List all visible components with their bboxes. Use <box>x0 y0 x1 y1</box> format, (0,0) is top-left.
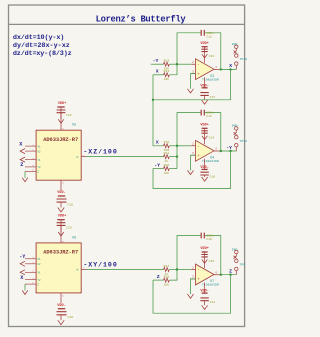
power VDD- multiplier <box>60 293 62 303</box>
svg-text:dx/dt=10(y-x): dx/dt=10(y-x) <box>13 34 65 42</box>
capacitor C13 <box>201 49 207 51</box>
svg-text:-Y: -Y <box>19 254 26 260</box>
svg-text:X: X <box>156 140 159 146</box>
ground <box>58 119 64 123</box>
wire X loop down <box>153 69 231 99</box>
capacitor C16 <box>57 199 67 202</box>
svg-text:X2: X2 <box>37 150 41 153</box>
wire -Y input <box>151 63 164 65</box>
ground Y1 <box>20 270 25 275</box>
wire -XZ/100 from multiplier U5 <box>87 156 164 158</box>
wire noninverting input to ground <box>191 74 196 89</box>
svg-text:C14: C14 <box>209 135 215 139</box>
wire C19 to output <box>205 236 221 275</box>
svg-text:C13: C13 <box>209 54 215 58</box>
pin 6 Z <box>25 283 36 285</box>
wire output <box>220 68 237 70</box>
svg-text:R18: R18 <box>164 275 170 279</box>
wire input rows to junction <box>176 146 178 169</box>
ground <box>202 305 208 309</box>
ground <box>202 100 208 104</box>
multiplier U5 AD633JRZ-R7 <box>36 130 81 180</box>
svg-text:-: - <box>197 269 200 273</box>
svg-text:-Y: -Y <box>154 163 160 169</box>
svg-text:dz/dt=xy-(8/3)z: dz/dt=xy-(8/3)z <box>13 50 72 58</box>
wire C11 to output <box>205 33 221 70</box>
svg-text:R17: R17 <box>164 264 170 268</box>
capacitor C19 100n <box>201 233 204 239</box>
ground <box>58 208 64 213</box>
svg-text:-Y: -Y <box>226 145 232 151</box>
wire to summing junction <box>170 63 178 65</box>
wire <box>170 269 178 271</box>
svg-text:-XY/100: -XY/100 <box>83 261 116 268</box>
svg-text:10k: 10k <box>164 171 170 175</box>
svg-text:Lorenz’s Butterfly: Lorenz’s Butterfly <box>96 14 187 24</box>
svg-text:C21: C21 <box>210 300 216 304</box>
svg-text:X: X <box>229 63 232 69</box>
test point TP12 <box>235 136 238 139</box>
capacitor C23 <box>57 223 66 226</box>
junction <box>220 68 222 70</box>
resistor R14 10k <box>164 73 170 77</box>
pin 6 Z <box>25 170 36 172</box>
ground X2 <box>20 149 25 154</box>
junction <box>176 145 178 147</box>
resistor R17 1k <box>164 268 170 272</box>
junction <box>229 150 231 152</box>
svg-text:X1: X1 <box>37 258 41 261</box>
svg-text:R16: R16 <box>164 163 170 167</box>
wire X input <box>153 74 164 76</box>
capacitor C12 100n <box>201 110 204 116</box>
ground <box>202 136 207 140</box>
svg-text:VDD+: VDD+ <box>200 124 208 128</box>
wire Z loop <box>153 275 231 314</box>
wire <box>170 156 178 158</box>
junction <box>220 150 222 152</box>
capacitor C17 <box>200 93 208 96</box>
svg-text:U5: U5 <box>72 123 76 127</box>
wire feedback to C19 <box>177 236 201 270</box>
svg-text:-XZ/100: -XZ/100 <box>83 148 116 155</box>
wire Z pin to ground <box>24 171 26 177</box>
op-amp U7 TL081AIDR <box>196 264 215 285</box>
svg-text:VDD-: VDD- <box>57 304 65 308</box>
wire output <box>220 274 237 276</box>
ground <box>202 177 208 181</box>
wire -XY/100 from multiplier U6 <box>87 269 164 271</box>
svg-text:10k: 10k <box>164 77 170 81</box>
svg-text:X: X <box>156 69 159 75</box>
svg-text:Z: Z <box>20 162 23 168</box>
svg-text:R15: R15 <box>164 140 170 144</box>
svg-text:C22: C22 <box>66 113 72 117</box>
svg-text:TP10: TP10 <box>240 57 248 61</box>
pin 7 W output <box>81 156 86 158</box>
svg-text:Y2: Y2 <box>37 166 41 169</box>
svg-text:X2: X2 <box>37 263 41 266</box>
sheet frame <box>9 5 245 327</box>
pin 1 X1 <box>25 258 36 260</box>
wire Z pin to ground <box>24 284 26 290</box>
svg-text:C18: C18 <box>210 174 216 178</box>
pin 2 X2 <box>25 150 36 152</box>
wire X row to junction <box>170 64 178 75</box>
svg-text:VDD+: VDD+ <box>200 42 208 46</box>
svg-text:C17: C17 <box>210 95 216 99</box>
wire -Y input row <box>153 168 164 170</box>
wire X to mid block <box>153 100 164 146</box>
wire feedback to C11 <box>177 33 201 64</box>
svg-text:AD633JRZ-R7: AD633JRZ-R7 <box>43 250 78 256</box>
pin 4 Y2 <box>25 166 36 168</box>
resistor R18 10k <box>164 278 170 282</box>
op-amp U3 TL081AIDR <box>196 59 215 80</box>
svg-text:C16: C16 <box>68 203 74 207</box>
pin 1 X1 <box>25 145 36 147</box>
wire feedback to C12 <box>177 113 201 146</box>
ground <box>188 294 194 298</box>
wire noninverting input to ground <box>191 155 196 170</box>
svg-text:Z: Z <box>157 274 160 280</box>
svg-text:10k: 10k <box>164 283 170 287</box>
ground X2 <box>20 261 25 266</box>
svg-text:C20: C20 <box>68 315 74 319</box>
pin 3 Y1 <box>25 159 36 161</box>
svg-text:R14: R14 <box>164 69 170 73</box>
svg-text:Y1: Y1 <box>37 272 41 275</box>
svg-text:dy/dt=28x-y-xz: dy/dt=28x-y-xz <box>13 42 70 50</box>
resistor R15 360 <box>164 144 170 148</box>
wire to summing junction mid <box>170 145 178 147</box>
pin 7 W output <box>81 269 86 271</box>
svg-text:VDD-: VDD- <box>57 191 65 195</box>
power VDD+ multiplier <box>60 220 62 243</box>
svg-text:C15: C15 <box>209 259 215 263</box>
ground <box>202 54 207 58</box>
svg-text:AD633JRZ-R7: AD633JRZ-R7 <box>43 137 78 143</box>
svg-text:R13: R13 <box>164 59 170 63</box>
svg-text:-: - <box>197 64 200 68</box>
capacitor C15 <box>201 255 207 257</box>
wire output <box>220 150 237 152</box>
wire Z row to junction <box>170 270 178 281</box>
resistor R11 1k <box>164 155 170 159</box>
svg-text:U6: U6 <box>72 235 76 239</box>
resistor R13 10k <box>164 62 170 66</box>
svg-text:-Y: -Y <box>153 58 159 64</box>
wire C12 to output <box>205 113 221 151</box>
power VDD- multiplier <box>60 180 62 190</box>
title separator <box>9 23 245 25</box>
wire to inverting input <box>177 269 191 271</box>
power VDD- <box>204 77 206 87</box>
test point TP10 <box>235 54 238 57</box>
test point TP9 <box>235 259 238 262</box>
power VDD+ multiplier <box>60 108 62 131</box>
wire X loop up to input <box>152 75 154 100</box>
junction <box>229 68 231 70</box>
svg-text:X1: X1 <box>37 145 41 148</box>
capacitor C18 <box>200 172 208 175</box>
svg-text:TP9: TP9 <box>240 263 246 267</box>
junction <box>229 274 231 276</box>
svg-text:VDD+: VDD+ <box>200 247 208 251</box>
wire to inverting input <box>177 145 191 147</box>
junction <box>152 99 154 101</box>
ground Y1 <box>20 157 25 162</box>
svg-text:C12: C12 <box>206 114 212 118</box>
junction <box>176 63 178 65</box>
ground Z <box>22 178 28 182</box>
ground <box>188 89 194 93</box>
svg-text:VDD+: VDD+ <box>58 102 66 106</box>
resistor R16 10k <box>164 167 170 171</box>
pin 2 X2 <box>25 263 36 265</box>
ground <box>188 170 194 174</box>
svg-text:C19: C19 <box>206 237 212 241</box>
power VDD- <box>204 283 206 293</box>
wire <box>170 168 178 170</box>
pin 3 Y1 <box>25 271 36 273</box>
capacitor C20 <box>57 312 67 315</box>
capacitor C21 <box>200 298 208 301</box>
svg-text:C23: C23 <box>66 226 72 230</box>
junction <box>176 155 178 157</box>
wire -Y loop <box>153 151 231 189</box>
svg-text:R11: R11 <box>164 151 170 155</box>
svg-text:VDD+: VDD+ <box>58 215 66 219</box>
svg-text:C11: C11 <box>206 34 212 38</box>
ground Z <box>22 290 28 294</box>
capacitor C22 <box>57 110 66 113</box>
wire to inverting input <box>177 63 191 65</box>
svg-text:-: - <box>197 146 200 150</box>
op-amp U4 TL081AIDR <box>196 140 215 161</box>
svg-text:Y1: Y1 <box>37 159 41 162</box>
wire Z input row <box>153 279 164 281</box>
pin 4 Y2 <box>25 279 36 281</box>
svg-text:Z: Z <box>229 269 232 275</box>
ground <box>58 232 64 236</box>
svg-text:TP12: TP12 <box>240 139 248 143</box>
multiplier U6 AD633JRZ-R7 <box>36 243 81 293</box>
capacitor C14 <box>201 131 207 133</box>
power VDD- <box>204 159 206 169</box>
junction <box>176 268 178 270</box>
capacitor C11 100n <box>201 30 204 36</box>
svg-text:Y2: Y2 <box>37 279 41 282</box>
junction <box>220 274 222 276</box>
ground <box>58 320 64 325</box>
wire noninverting input to ground <box>191 279 196 294</box>
ground <box>202 260 207 264</box>
